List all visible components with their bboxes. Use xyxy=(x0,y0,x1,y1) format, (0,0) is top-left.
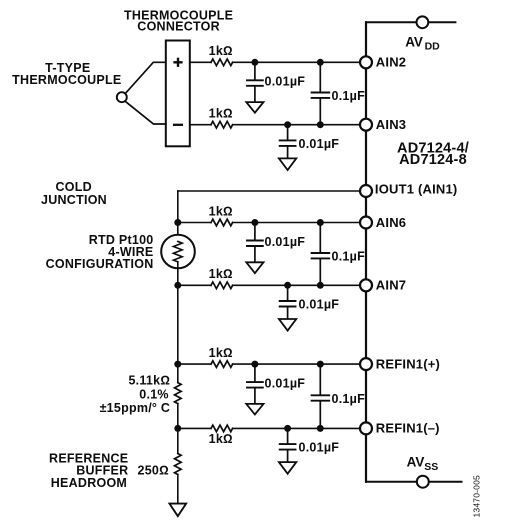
capacitor 0.1uF (REFIN1+/REFIN1-) xyxy=(312,364,330,428)
svg-text:1kΩ: 1kΩ xyxy=(209,107,233,121)
svg-text:AV: AV xyxy=(405,35,423,50)
pin REFIN1(-) xyxy=(360,422,372,434)
RTD Pt100 sensor xyxy=(161,235,195,269)
svg-text:1kΩ: 1kΩ xyxy=(209,204,233,218)
node REFIN1+/capC junction xyxy=(317,361,324,368)
resistor R 1k (AIN3) xyxy=(211,121,233,128)
wire AIN6 row resistor to pin xyxy=(233,222,366,224)
svg-text:DD: DD xyxy=(425,41,441,53)
svg-text:1kΩ: 1kΩ xyxy=(209,432,233,446)
capacitor 0.1uF (AIN2/AIN3) xyxy=(312,62,330,124)
node RTD top junction xyxy=(174,219,181,226)
node AIN7/capC junction xyxy=(317,282,324,289)
wire AIN3 row resistor to pin xyxy=(233,124,366,126)
svg-text:CONFIGURATION: CONFIGURATION xyxy=(46,257,154,271)
AVSS label xyxy=(407,454,439,472)
thermocouple connector body xyxy=(166,41,190,147)
wire IOUT1 row xyxy=(178,190,366,192)
svg-text:HEADROOM: HEADROOM xyxy=(51,476,127,490)
capacitor 0.1uF (AIN6/AIN7) xyxy=(312,223,330,286)
node AIN2/capC junction xyxy=(317,59,324,66)
node REFIN1+ junction xyxy=(174,361,181,368)
pin REFIN1(+) xyxy=(360,358,372,370)
wire left rail AIN7 to REFIN1+ xyxy=(177,285,179,382)
wire REFIN1- row resistor to pin xyxy=(233,427,366,429)
ground (AIN3 cap) xyxy=(279,158,296,170)
T-type thermocouple label xyxy=(12,61,121,87)
svg-text:0.1%: 0.1% xyxy=(139,388,169,402)
ground (REFIN1- cap) xyxy=(279,462,296,474)
svg-text:250Ω: 250Ω xyxy=(138,464,169,478)
AVDD rail wire xyxy=(366,21,455,23)
node AIN6/capC junction xyxy=(317,219,324,226)
svg-text:AV: AV xyxy=(407,454,425,469)
node REFIN1-/capB junction xyxy=(284,425,291,432)
resistor R 1k (REFIN1-) xyxy=(211,425,233,432)
svg-text:0.1µF: 0.1µF xyxy=(332,392,366,406)
AVSS terminal xyxy=(417,476,429,488)
svg-text:JUNCTION: JUNCTION xyxy=(41,193,107,207)
wire AIN3 row from connector to resistor xyxy=(190,124,211,126)
ground (REFIN1+ cap) xyxy=(246,404,263,415)
svg-text:REFIN1(–): REFIN1(–) xyxy=(376,421,440,436)
svg-text:AIN3: AIN3 xyxy=(376,117,406,132)
wire REFIN1+ row resistor to pin xyxy=(233,363,366,365)
svg-text:AD7124-8: AD7124-8 xyxy=(399,152,467,168)
svg-text:0.01µF: 0.01µF xyxy=(265,75,306,89)
ground (AIN2 cap) xyxy=(246,102,263,113)
node AIN3/capB junction xyxy=(284,121,291,128)
svg-text:AIN7: AIN7 xyxy=(376,278,406,293)
wire AIN7 row resistor to pin xyxy=(233,284,366,286)
thermocouple connector header label xyxy=(124,9,233,34)
svg-text:±15ppm/° C: ±15ppm/° C xyxy=(100,401,171,415)
svg-text:0.01µF: 0.01µF xyxy=(265,376,306,390)
svg-text:THERMOCOUPLE: THERMOCOUPLE xyxy=(12,73,121,87)
thermocouple lead - wire xyxy=(125,101,166,124)
node REFIN1-/capC junction xyxy=(317,425,324,432)
node RTD bottom junction xyxy=(174,282,181,289)
resistor 250 headroom xyxy=(175,454,182,475)
wire 250 to ground xyxy=(177,475,179,504)
connector minus terminal mark xyxy=(174,124,182,126)
ground (AIN7 cap) xyxy=(279,319,296,331)
thermocouple lead + wire xyxy=(125,62,166,93)
thermocouple junction bead xyxy=(117,92,127,102)
pin AIN6 xyxy=(360,217,372,229)
svg-text:SS: SS xyxy=(424,461,438,473)
wire REFIN1- row rail to resistor xyxy=(178,427,211,429)
resistor R 1k (AIN7) xyxy=(211,282,233,289)
node REFIN1- junction xyxy=(174,425,181,432)
svg-text:0.01µF: 0.01µF xyxy=(299,297,340,311)
svg-text:AIN2: AIN2 xyxy=(376,55,406,70)
node AIN7/capB junction xyxy=(284,282,291,289)
resistor 5.11k reference xyxy=(175,383,182,404)
capacitor 0.01uF (AIN3) xyxy=(280,125,296,159)
cold junction label xyxy=(41,180,107,207)
wire AIN2 row from connector to resistor xyxy=(190,61,211,63)
ground (AIN6 cap) xyxy=(246,262,263,273)
reference buffer headroom label xyxy=(49,451,128,490)
svg-text:1kΩ: 1kΩ xyxy=(209,346,233,360)
resistor R 1k (AIN2) xyxy=(211,59,233,66)
pin AIN7 xyxy=(360,279,372,291)
capacitor 0.01uF (AIN7) xyxy=(280,285,296,319)
capacitor 0.01uF (AIN6) xyxy=(247,223,263,263)
svg-text:0.01µF: 0.01µF xyxy=(299,441,340,455)
RTD label xyxy=(46,233,154,271)
svg-text:0.01µF: 0.01µF xyxy=(299,137,340,151)
wire AIN2 row resistor to pin xyxy=(233,61,366,63)
svg-text:13470-005: 13470-005 xyxy=(472,475,482,518)
svg-text:AIN6: AIN6 xyxy=(376,215,406,230)
node AIN2/capA junction xyxy=(251,59,258,66)
svg-text:0.1µF: 0.1µF xyxy=(332,89,366,103)
svg-text:5.11kΩ: 5.11kΩ xyxy=(128,374,170,388)
pin AIN3 xyxy=(360,119,372,131)
resistor R 1k (AIN6) xyxy=(211,219,233,226)
chip name AD7124-4/AD7124-8 xyxy=(397,141,469,168)
wire AIN6 row rail to resistor xyxy=(178,222,211,224)
wire left rail RTD to AIN7 xyxy=(177,262,179,286)
wire AIN7 row rail to resistor xyxy=(178,284,211,286)
connector plus terminal mark xyxy=(175,59,182,66)
svg-text:CONNECTOR: CONNECTOR xyxy=(137,19,220,33)
wire left rail upper xyxy=(177,191,179,241)
svg-text:REFIN1(+): REFIN1(+) xyxy=(376,356,440,371)
node AIN6/capA junction xyxy=(251,219,258,226)
label 5.11k 0.1% 15ppm xyxy=(100,374,171,415)
node AIN3/capC junction xyxy=(317,121,324,128)
capacitor 0.01uF (REFIN1-) xyxy=(280,428,296,462)
wire REFIN1+ row rail to resistor xyxy=(178,363,211,365)
AVSS rail wire xyxy=(366,481,462,483)
svg-text:1kΩ: 1kΩ xyxy=(209,267,233,281)
pin AIN2 xyxy=(360,56,372,68)
svg-text:0.1µF: 0.1µF xyxy=(332,250,366,264)
svg-text:IOUT1 (AIN1): IOUT1 (AIN1) xyxy=(375,182,458,197)
chip boundary line AD7124 xyxy=(365,22,367,481)
svg-text:1kΩ: 1kΩ xyxy=(209,44,233,58)
ground (reference rail) xyxy=(170,504,187,517)
resistor R 1k (REFIN1+) xyxy=(211,361,233,368)
node REFIN1+/capA junction xyxy=(251,361,258,368)
capacitor 0.01uF (AIN2) xyxy=(247,62,263,102)
svg-text:0.01µF: 0.01µF xyxy=(265,235,306,249)
AVDD label xyxy=(405,35,440,53)
AVDD terminal xyxy=(417,16,429,28)
wire left rail 5.11k to REFIN1- xyxy=(177,404,179,454)
pin IOUT1 (AIN1) xyxy=(360,185,372,197)
capacitor 0.01uF (REFIN1+) xyxy=(247,364,263,404)
